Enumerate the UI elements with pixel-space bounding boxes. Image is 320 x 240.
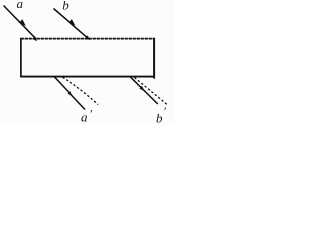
svg-text:′: ′ <box>89 107 92 121</box>
ray a end arrowhead <box>32 36 37 41</box>
ray a <box>4 6 36 39</box>
svg-text:a: a <box>17 0 24 11</box>
slab rectangle left edge <box>20 38 22 78</box>
dashed line b' <box>135 78 167 105</box>
ray b end arrowhead <box>85 35 90 40</box>
ray a mid arrowhead <box>19 19 26 26</box>
svg-text:b: b <box>62 0 69 12</box>
svg-text:′: ′ <box>163 104 166 118</box>
ray b <box>54 9 89 39</box>
slab rectangle top edge <box>21 38 155 40</box>
ray b' mid arrowhead <box>139 86 144 91</box>
dashed line a' <box>63 77 99 104</box>
ray b' (exit) <box>130 77 158 104</box>
slab rectangle right edge <box>153 38 155 79</box>
svg-text:b: b <box>156 110 163 125</box>
ray b mid arrowhead <box>69 19 76 26</box>
ray a' (exit) <box>55 77 86 110</box>
svg-text:a: a <box>81 109 88 124</box>
ray a' mid arrowhead <box>68 91 73 96</box>
slab rectangle bottom edge <box>21 76 155 78</box>
